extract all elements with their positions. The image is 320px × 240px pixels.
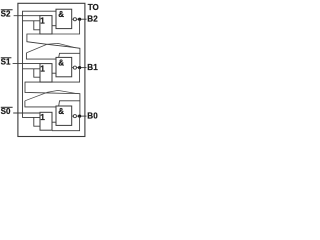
wire S1 input (13, 63, 40, 65)
wire B0 top-pin feedback (59, 101, 80, 106)
OR gate U1 (row 1) (40, 16, 52, 34)
vertical bus wire from S2 distribution (23, 11, 57, 117)
junction node B2 (78, 18, 81, 21)
wire crossover diagonal gap 1 (26, 43, 75, 53)
input label S1bar (1, 57, 12, 66)
svg-text:S2: S2 (1, 9, 11, 18)
wire OR2 output to AND2 in2 (52, 72, 56, 74)
wire wrap 2 gap 1 to AND2 in1 (26, 53, 56, 59)
wire B2 feedback wrap to row 2 (27, 19, 80, 67)
wire OR3 output to AND3 in2 (52, 121, 56, 123)
svg-text:B1: B1 (87, 63, 98, 72)
wire crossover diagonal gap 2 (25, 90, 76, 100)
wire wrap 2 gap 2 to AND3 in1 (25, 101, 56, 107)
AND gate U4 (row 2) (56, 57, 72, 76)
wire S2 branch down to OR1 in3 (34, 21, 40, 30)
svg-text:S1: S1 (1, 57, 11, 66)
inverter bubble AND3 output (73, 115, 76, 118)
inverter bubble AND1 output (73, 18, 76, 21)
svg-text:&: & (58, 58, 64, 67)
inverter bubble AND2 output (73, 66, 76, 69)
wire S0 branch down to OR3 in3 (34, 117, 40, 126)
wire AND1 output to B2 (72, 18, 87, 20)
svg-text:B2: B2 (87, 15, 98, 24)
svg-text:1: 1 (40, 113, 45, 122)
svg-text:&: & (58, 107, 64, 116)
svg-text:1: 1 (40, 64, 45, 73)
OR gate U3 (row 2) (40, 64, 52, 83)
wire B1 top-pin feedback (59, 53, 80, 57)
wire B1 feedback wrap to row 3 (25, 68, 80, 117)
wire B0 feedback wrap under OR3 (52, 116, 80, 131)
wire S0 input (13, 112, 40, 114)
wire S2 input (14, 15, 40, 17)
svg-text:&: & (58, 10, 64, 19)
input label S2bar (1, 9, 13, 18)
input label S0bar (1, 107, 13, 116)
wire OR1 output to AND1 in2 (52, 25, 56, 27)
OR gate U5 (row 3) (40, 112, 52, 130)
wire AND2 output to B1 (72, 67, 87, 69)
junction node B1 (78, 66, 81, 69)
junction node B0 (78, 115, 81, 118)
wire OR2 in2 from bus (23, 68, 41, 70)
outer IC box (18, 3, 85, 136)
wire OR1 in2 from bus (23, 20, 41, 22)
wire S1 branch down to OR2 in3 (34, 69, 40, 77)
AND gate U6 (row 3) (56, 106, 72, 125)
wire AND3 output to B0 (72, 115, 87, 117)
svg-text:1: 1 (40, 16, 45, 25)
svg-text:B0: B0 (87, 112, 98, 121)
svg-text:TO: TO (88, 3, 99, 12)
AND gate U2 (row 1) (56, 9, 72, 28)
svg-text:S0: S0 (1, 107, 11, 116)
